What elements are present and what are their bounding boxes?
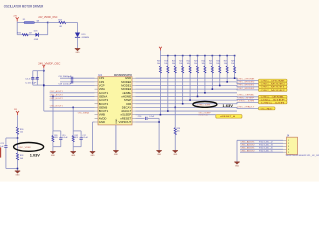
junction R26 row [219,85,221,87]
wire signal row 3 [136,85,238,87]
ground J4 shield [234,161,239,163]
wire CP2 [60,81,95,83]
wire sense bottom bar R31 [53,146,61,148]
pin ISENB (left 9) [95,106,99,108]
junction rail top [43,70,45,72]
svg-text:0R3: 0R3 [54,137,57,139]
port OSC_nENBL [259,95,288,98]
pin MODE2 (right 17) [132,88,136,90]
junction R27 row [226,81,228,83]
svg-text:GND: GND [51,155,56,157]
wire nRESET row [136,114,216,116]
wire node A to R17 [48,22,59,24]
wire rail to bypass caps [33,70,44,72]
wire signal row 8 [136,103,238,105]
power flag 3V3 (divider) [16,111,19,113]
resistor R21 10k [182,56,184,67]
svg-text:R21: R21 [179,60,182,62]
wire 24V to fuse [16,21,18,22]
svg-text:2: 2 [288,143,289,145]
pin 5 J4 [283,151,287,153]
svg-text:C8 0.01uF: C8 0.01uF [59,84,73,86]
svg-text:WURTH-61300611121_LF_SN: WURTH-61300611121_LF_SN [286,155,320,157]
wire VREF to C23 [6,137,18,139]
svg-text:NetJ4_5: NetJ4_5 [259,150,274,153]
svg-text:GND: GND [71,155,76,157]
svg-text:R24: R24 [202,60,205,62]
junction R29 row [234,77,236,79]
svg-text:5: 5 [288,152,289,154]
svg-text:GND: GND [114,154,119,156]
svg-text:24V_VM/DF_OSC: 24V_VM/DF_OSC [38,16,57,19]
junction rail R19 [167,55,169,57]
svg-text:C12 0.1uF: C12 0.1uF [25,78,38,80]
resistor R22 10k [189,56,191,67]
svg-text:NetJ4_2: NetJ4_2 [259,141,274,144]
junction rail R25 [212,55,214,57]
wire flag to R30 [17,115,19,127]
svg-text:OSC_MODE2: OSC_MODE2 [261,90,287,92]
junction rail R20 [174,55,176,57]
svg-text:OSC_ISENA: OSC_ISENA [78,112,90,115]
svg-text:OSC_AOUT1: OSC_AOUT1 [241,141,256,144]
junction R23 row [197,96,199,98]
junction rail R27 [226,55,228,57]
ground AVDD drop [90,151,95,153]
svg-text:OSC_DIR: OSC_DIR [197,104,211,106]
svg-text:1.63V: 1.63V [222,103,233,108]
svg-text:0.1uF: 0.1uF [149,116,155,118]
capacitor C8 [70,80,72,83]
svg-text:10k: 10k [157,63,160,65]
pin AOUT1 (left 5) [95,92,99,94]
wire R30 to VREF node [17,134,19,153]
svg-text:OSC_AOUT2: OSC_AOUT2 [241,144,256,147]
annotation ellipse DECAY node [193,102,217,108]
svg-text:GND: GND [116,118,118,123]
pin DIR (right 21) [132,103,136,105]
wire signal row 5 [136,92,238,94]
wire R27 to row [226,73,228,82]
junction R24 row [204,92,206,94]
wire R25 to row [211,73,213,89]
pin 3 J4 [283,145,287,147]
wire J4 OSC_BOUT1 [240,148,283,150]
junction R18 row [160,114,162,116]
svg-text:C23: C23 [0,143,3,145]
capacitor C12 [31,77,34,79]
pin VMB (left 11) [95,114,99,116]
pin nRESET (right 25) [132,117,136,119]
pin 2 J4 [283,142,287,144]
junction divider bottom [17,168,19,170]
svg-text:GREEN: GREEN [82,37,90,39]
wire V3P3OUT to C16 [136,117,145,119]
svg-text:GND: GND [76,52,81,54]
power flag on rail [43,65,45,67]
wire signal row 7 [136,99,238,101]
wire signal row 9 [136,106,238,108]
wire R28 to ground [174,135,176,151]
ground C16 [156,150,161,152]
pin nSLEEP (right 24) [132,114,136,116]
ground below LED [75,48,80,50]
wire R16 to D18 [28,34,35,36]
junction R25 row [212,88,214,90]
pin MODE1 (right 16) [132,85,136,87]
svg-text:R27: R27 [224,60,227,62]
port OSC_nHOME [259,79,288,82]
wire D18 to node A branch [39,34,48,36]
annotation ellipse VREF node [14,143,44,152]
svg-text:10k: 10k [209,63,212,65]
wire C23 to divider bottom [6,168,18,170]
wire AVDD ground drop [93,121,95,123]
wire rail to VCP pin [44,85,95,87]
svg-text:3V3: 3V3 [14,109,17,111]
svg-text:V3P3OUT: V3P3OUT [118,120,131,124]
wire R26 to row [219,73,221,85]
junction rail R24 [204,55,206,57]
pin GND (left 13) [95,121,99,123]
resistor R23 10k [197,56,199,67]
port OSC_nFAULT [259,107,276,110]
power flag 24V [16,17,19,19]
svg-text:C6 1000pF: C6 1000pF [59,76,73,78]
svg-text:OSC_MODE1: OSC_MODE1 [237,85,255,87]
svg-text:10k: 10k [202,63,205,65]
svg-text:10k: 10k [172,63,175,65]
svg-text:OSCILLATOR MOTOR DRIVER: OSCILLATOR MOTOR DRIVER [4,3,44,8]
svg-text:10k: 10k [164,63,167,65]
wire CP1 [60,77,95,79]
port OSC_STEP [259,98,288,101]
pin 1 J4 [283,139,287,141]
wire R22 to row [189,73,191,100]
IC U4 DRV8825PWPR body [98,77,132,125]
LED D19 [75,33,80,38]
ground R31 [50,151,55,153]
wire sense top bar R32 [73,130,81,132]
wire signal row 2 [136,81,238,83]
wire signal row 4 [136,88,238,90]
resistor R25 10k [211,56,213,67]
svg-text:4: 4 [288,149,289,151]
resistor R28 10k (pull-down on nFAULT node) [174,107,176,127]
svg-text:10k: 10k [216,63,219,65]
connector J4 body [287,137,298,154]
svg-text:OSC_BOUT1: OSC_BOUT1 [241,148,256,150]
sheet background [0,0,320,183]
wire J4 OSC_BOUT2 [240,151,283,153]
svg-text:0R3: 0R3 [75,137,78,139]
pin CP1 (left 1) [95,77,99,79]
svg-text:NetJ4_4: NetJ4_4 [259,147,274,150]
wire sense top bar R31 [53,130,61,132]
svg-text:R16: R16 [17,33,20,35]
wire J4 pin1 shield [237,139,283,141]
sheet edge highlights [0,182,320,183]
wire ISENA row with sense drop [50,95,95,97]
svg-text:OSC_MODE2: OSC_MODE2 [237,88,255,90]
svg-text:RESET_A: RESET_A [199,114,209,117]
junction rail R22 [189,55,191,57]
port OSC_MODE1 [259,85,288,88]
svg-text:3: 3 [288,146,289,148]
wire 24V rail vertical [43,68,45,111]
junction rail R23 [197,55,199,57]
pin AVDD (left 12) [95,117,99,119]
pin 4 J4 [283,148,287,150]
wire nSLEEP row [136,110,238,112]
pin BOUT2 (left 8) [95,103,99,105]
wire R18 to row [159,73,161,115]
ground R28 [173,150,178,152]
sheet border mark [0,147,2,157]
svg-text:10k: 10k [224,63,227,65]
wire R23 to row [197,73,199,96]
wire pull-up rail [159,50,161,55]
svg-text:OSC_DIR: OSC_DIR [261,102,287,104]
svg-text:GND: GND [16,174,21,176]
svg-text:NetJ4_3: NetJ4_3 [259,144,274,147]
svg-text:R26: R26 [216,60,219,62]
wire R24 to row [204,73,206,93]
svg-text:GND: GND [157,154,162,156]
pin nHOME (right 19) [132,95,136,97]
power flag 3V3 (pull-up rail) [159,47,162,49]
pin V3P3OUT (right 26) [132,121,136,123]
svg-text:C13 1uF: C13 1uF [25,83,37,85]
pin VMA (left 4) [95,88,99,90]
junction C16 drop [158,121,160,123]
svg-text:10k: 10k [194,63,197,65]
wire BOUT2 [50,99,95,101]
junction R21 row [182,103,184,105]
junction rail R29 [234,55,236,57]
port OSC_MODE0 [259,82,288,85]
wire R33 to ground [17,160,19,171]
diode D18 [36,33,39,37]
svg-text:R30: R30 [20,129,23,131]
svg-text:OSC_BOUT2: OSC_BOUT2 [241,151,256,153]
wire J4 OSC_AOUT2 [240,145,283,147]
svg-text:10k: 10k [187,63,190,65]
svg-text:R29: R29 [231,60,234,62]
pin ISENA (left 6) [95,95,99,97]
resistor R20 10k [174,56,176,67]
svg-text:10k: 10k [179,63,182,65]
junction rail R26 [219,55,221,57]
svg-text:24V_VM/DF_OSC: 24V_VM/DF_OSC [38,62,60,65]
svg-text:OSC_VREF: OSC_VREF [18,147,32,149]
pin GND (right 14) [132,77,136,79]
svg-text:10k: 10k [177,131,180,133]
wire 24V down branch [16,23,18,35]
svg-text:OSC_nHOME: OSC_nHOME [237,79,255,81]
ground IC pad [113,150,118,152]
svg-text:4148: 4148 [34,39,38,41]
resistor R29 10k [234,56,236,67]
port nRESET_A [216,115,242,119]
svg-text:12k: 12k [20,132,23,134]
wire ISENB row with sense drop [50,106,95,108]
junction R20 row [174,107,176,109]
svg-text:R19: R19 [164,60,167,62]
svg-text:D18: D18 [34,30,37,32]
svg-text:R33: R33 [20,155,23,157]
capacitor C6 [70,77,72,80]
wire AOUT1 [50,92,95,94]
wire C16 to ground [148,117,159,119]
wire fuse to node A [35,22,48,24]
wire R21 to row [182,73,184,104]
pin STEP (right 20) [132,99,136,101]
capacitor C13 [36,77,39,79]
resistor R30 12k [16,127,18,134]
resistor R24 10k [204,56,206,67]
pin nFAULT (right 23) [132,110,136,112]
resistor R26 10k [219,56,221,67]
capacitor C16 [144,117,146,120]
svg-text:1.03V: 1.03V [30,152,40,157]
svg-text:R25: R25 [209,60,212,62]
wire R17 to LED [66,22,78,24]
pin AOUT2 (left 7) [95,99,99,101]
pin BOUT1 (left 10) [95,110,99,112]
svg-text:OSC_DIR: OSC_DIR [237,100,255,102]
svg-text:OSC_nFAULT: OSC_nFAULT [237,105,255,108]
junction rail R21 [182,55,184,57]
resistor R33 5k6 [16,153,18,160]
svg-text:10k: 10k [231,63,234,65]
pin DECAY (right 22) [132,106,136,108]
wire GND row stub [136,121,160,123]
pin GND pad (bottom) [115,125,117,150]
pin nENBL (right 18) [132,92,136,94]
svg-text:R20: R20 [172,60,175,62]
svg-text:R23: R23 [194,60,197,62]
junction node A [47,22,49,24]
svg-text:GND: GND [173,154,178,156]
resistor R18 10k [159,56,161,67]
wire sense bottom bar R32 [73,146,81,148]
svg-text:GND: GND [99,120,105,124]
svg-text:GND: GND [91,155,96,157]
port OSC_MODE2 [259,88,288,91]
svg-text:GND: GND [235,165,240,167]
pin MODE0 (right 15) [132,81,136,83]
svg-text:4k7: 4k7 [29,33,32,35]
junction VREF cap branch [17,137,19,139]
ground divider [15,170,20,172]
svg-text:5k6: 5k6 [20,158,23,160]
wire signal row 6 [136,95,238,97]
wire R20 to row [174,73,176,107]
pin VCP (left 3) [95,85,99,87]
junction R22 row [189,99,191,101]
svg-text:OSC_STEP: OSC_STEP [237,97,255,99]
svg-text:C16: C16 [138,116,141,118]
port OSC_DIR [259,101,288,104]
junction rail bottom [43,84,45,86]
svg-text:OSC_MODE0: OSC_MODE0 [237,82,255,84]
svg-text:R22: R22 [187,60,190,62]
wire rail to VMB pin [44,110,95,112]
pin CP2 (left 2) [95,81,99,83]
wire R29 to row [234,73,236,78]
resistor R19 10k [167,56,169,67]
svg-text:OSC_nFAULT: OSC_nFAULT [261,107,274,110]
fuse F1 [24,21,35,23]
svg-text:R18: R18 [157,60,160,62]
wire J4 OSC_AOUT1 [240,142,283,144]
resistor R27 10k [226,56,228,67]
ground R32 [71,151,76,153]
resistor R17 [59,21,66,23]
junction R19 row [167,110,169,112]
svg-text:nRESET_A: nRESET_A [220,115,236,118]
svg-text:1: 1 [288,140,289,142]
wire R19 to row [167,73,169,111]
wire signal row 1 [136,77,238,79]
wire LED to ground [77,37,79,48]
